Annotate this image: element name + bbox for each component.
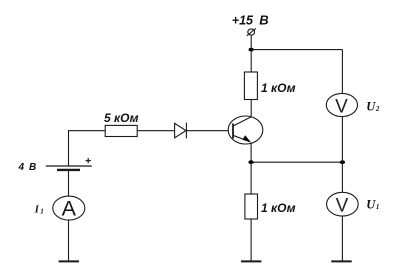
svg-text:A: A xyxy=(62,197,77,221)
resistor R2 1 кОм (emitter) xyxy=(245,194,258,219)
ground (ammeter) xyxy=(59,260,79,262)
transistor Q1 (NPN) xyxy=(228,116,263,144)
power terminal +15V xyxy=(247,28,256,35)
wire right column down to voltmeter U2 xyxy=(341,50,343,94)
wire node B to resistor R2 xyxy=(250,162,252,194)
ground (emitter resistor) xyxy=(241,260,261,262)
wire R2 to ground xyxy=(250,219,252,261)
svg-text:В: В xyxy=(259,13,268,28)
diode D1 xyxy=(175,123,187,139)
wire battery to ammeter xyxy=(68,170,70,196)
resistor R3 5 кОм xyxy=(105,125,137,136)
ground (U1) xyxy=(331,260,351,262)
battery B1 4 В xyxy=(46,166,92,170)
wire terminal to node A xyxy=(250,35,252,49)
svg-text:5 кОм: 5 кОм xyxy=(104,111,139,125)
node A (junction dot) xyxy=(249,48,254,52)
voltmeter U2 xyxy=(326,93,357,117)
wire node C to voltmeter U1 xyxy=(341,162,343,192)
wire left corner down to battery xyxy=(68,130,70,166)
wire node A to resistor R1 xyxy=(250,50,252,72)
svg-text:+15: +15 xyxy=(232,14,254,28)
voltmeter U1 xyxy=(327,192,359,216)
wire R3 to left corner xyxy=(68,130,105,132)
resistor R1 1 кОм (collector) xyxy=(244,72,257,100)
wire ammeter to ground xyxy=(68,220,70,261)
wire U1 to ground xyxy=(341,216,343,261)
svg-text:V: V xyxy=(336,196,349,217)
wire node B to node C xyxy=(251,161,342,163)
wire base to diode xyxy=(186,130,228,132)
svg-text:1 кОм: 1 кОм xyxy=(261,81,296,95)
svg-text:V: V xyxy=(335,96,348,117)
label + (battery polarity) xyxy=(86,158,91,163)
ammeter A (I1) xyxy=(53,196,85,220)
svg-text:1 кОм: 1 кОм xyxy=(261,201,296,215)
wire emitter to node B xyxy=(250,143,252,163)
node C (junction dot right) xyxy=(340,160,345,164)
wire diode to resistor R3 xyxy=(137,130,174,132)
node B (emitter junction dot) xyxy=(248,160,253,164)
wire U2 to node C xyxy=(341,117,343,163)
svg-text:4 В: 4 В xyxy=(18,162,37,173)
wire node A to right column xyxy=(251,49,342,51)
wire R1 to transistor collector xyxy=(250,100,252,118)
